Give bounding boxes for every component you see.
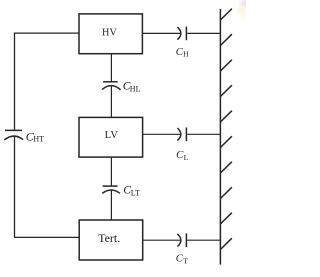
wire left rail lower <box>14 137 16 238</box>
svg-text:HL: HL <box>130 84 141 93</box>
wire C_HL to LV top <box>110 86 112 117</box>
capacitor C_HT <box>4 130 23 140</box>
svg-text:LT: LT <box>131 188 140 197</box>
ground hatch 7 <box>220 162 232 173</box>
capacitor C_T <box>177 233 186 247</box>
ground hatch 10 <box>220 238 232 249</box>
svg-text:LV: LV <box>105 130 119 141</box>
wire C_LT to Tert top <box>110 191 112 221</box>
box LV <box>79 117 143 157</box>
capacitor C_L <box>177 128 186 142</box>
box HV <box>79 14 142 54</box>
ground hatch 2 <box>220 34 232 45</box>
wire bottom rail to Tert <box>14 236 79 238</box>
svg-text:HV: HV <box>102 27 118 38</box>
ground hatch 1 <box>220 9 232 20</box>
svg-text:T: T <box>183 256 188 265</box>
wire C_L to wall <box>187 133 220 135</box>
wire HV left to rail <box>15 32 80 34</box>
svg-text:H: H <box>183 50 189 59</box>
wire C_T to wall <box>187 239 220 241</box>
wire LV right to C_L <box>143 133 181 135</box>
ground hatch 6 <box>220 136 232 147</box>
ground hatch 3 <box>220 60 232 71</box>
ground hatch 5 <box>220 111 232 122</box>
svg-text:L: L <box>184 153 189 162</box>
ground hatch 9 <box>220 213 232 224</box>
wire Tert right to C_T <box>143 239 181 241</box>
capacitor C_H <box>177 27 186 41</box>
wire left rail upper <box>14 33 16 131</box>
svg-text:Tert.: Tert. <box>98 231 120 245</box>
ground hatch 8 <box>220 187 232 198</box>
capacitor C_HL <box>102 82 121 90</box>
capacitor C_LT <box>102 186 120 193</box>
wire HV right to C_H <box>142 32 180 34</box>
wire LV bottom to C_LT <box>110 157 112 186</box>
svg-text:HT: HT <box>33 135 44 144</box>
wire C_H to wall <box>187 32 220 34</box>
decorative jpeg smudge top right <box>238 0 249 20</box>
ground hatch 4 <box>220 85 232 96</box>
box Tert <box>79 220 143 260</box>
wire HV bottom to C_HL <box>110 54 112 82</box>
ground wall <box>220 9 232 265</box>
